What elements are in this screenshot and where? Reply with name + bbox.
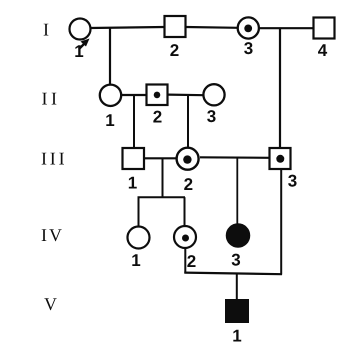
svg-text:3: 3	[244, 39, 253, 58]
individual II-3 female circle	[203, 84, 224, 105]
individual III-1 male square	[123, 148, 145, 169]
individual II-1 female circle	[100, 85, 121, 106]
svg-text:V: V	[44, 294, 57, 314]
svg-text:2: 2	[170, 41, 179, 60]
wire descent below IV-2	[184, 248, 186, 273]
wire couple line III-1 to III-2	[144, 157, 176, 159]
svg-text:1: 1	[232, 327, 241, 346]
wire descent I-3xI-4 to III-3	[279, 28, 281, 148]
individual I-4 male square	[314, 18, 335, 39]
svg-text:2: 2	[153, 108, 162, 127]
svg-text:3: 3	[231, 251, 240, 270]
individual IV-1 female circle	[128, 227, 150, 249]
svg-text:II: II	[42, 89, 61, 109]
wire couple line I-3 to I-4	[259, 27, 314, 29]
individual III-3 carrier male square with dot	[270, 148, 291, 169]
wire couple line I-1 to I-2	[90, 27, 164, 28]
wire descent I-1xI-2 to II-1	[109, 28, 111, 85]
individual IV-2 carrier female circle with dot	[174, 226, 196, 248]
wire couple line III-2 to III-3	[200, 156, 270, 159]
wire sibship line IV-1 IV-2	[138, 196, 186, 198]
svg-text:2: 2	[184, 175, 193, 194]
wire descent III-1xIII-2 to sibship	[162, 158, 164, 197]
wire descent II-1xII-2 to III-1	[133, 95, 135, 148]
wire couple line I-2 to I-3	[186, 26, 238, 29]
individual I-3 carrier female circle with dot	[238, 17, 259, 38]
wire couple line II-2 to II-3	[168, 93, 204, 96]
wire descent to V-1	[236, 273, 238, 300]
svg-text:2: 2	[187, 252, 196, 271]
svg-text:4: 4	[318, 41, 328, 60]
svg-text:1: 1	[128, 174, 137, 193]
individual IV-3 affected female filled circle	[227, 224, 250, 247]
svg-text:1: 1	[105, 111, 114, 130]
individual II-2 carrier male square with dot	[147, 85, 168, 106]
svg-text:IV: IV	[41, 225, 64, 245]
svg-text:III: III	[41, 149, 67, 169]
svg-text:1: 1	[74, 42, 83, 61]
svg-text:3: 3	[207, 107, 216, 126]
wire couple line II-1 to II-2	[121, 94, 147, 96]
svg-text:I: I	[43, 20, 49, 40]
wire descent II-2xII-3 to III-2	[187, 94, 189, 147]
wire consanguineous mating line IV-2 x III-3	[184, 273, 282, 275]
wire drop to IV-1	[138, 197, 140, 227]
wire descent below III-3	[280, 169, 282, 275]
individual I-1 female circle	[70, 19, 91, 40]
wire descent III-2xIII-3 to IV-3	[236, 158, 238, 224]
wire drop to IV-2	[184, 197, 186, 226]
individual I-2 male square	[165, 16, 186, 37]
proband arrow to I-1	[79, 39, 90, 50]
svg-text:3: 3	[288, 172, 297, 191]
individual III-2 carrier female circle with dot	[177, 148, 199, 170]
svg-text:1: 1	[131, 251, 140, 270]
individual V-1 affected male filled square	[226, 300, 249, 323]
